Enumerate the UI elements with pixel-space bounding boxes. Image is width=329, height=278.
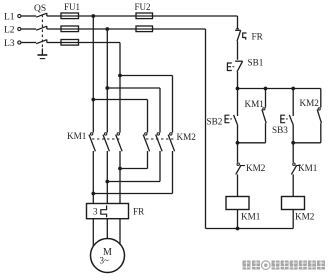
fuse FU1 xyxy=(61,2,80,45)
svg-text:KM2: KM2 xyxy=(295,212,315,222)
wire KM1 aux lower xyxy=(238,123,266,143)
node L2 xyxy=(4,26,21,36)
pushbutton SB1 NC stop xyxy=(227,58,263,72)
contactor KM1 main contacts xyxy=(67,131,122,151)
junction dot rail at SB3 branch xyxy=(291,87,295,91)
svg-text:QS: QS xyxy=(34,4,46,14)
contactor KM2 auxiliary NO contact xyxy=(300,98,322,123)
wire L3 QS to FU1 xyxy=(47,42,61,44)
svg-text:SB2: SB2 xyxy=(207,117,223,127)
wire control right column top xyxy=(236,16,239,29)
junction dot L1 drop xyxy=(91,14,95,18)
wire SB1 to top rail xyxy=(237,72,239,89)
junction dot tee U to KM2 xyxy=(91,98,95,102)
svg-text:FR: FR xyxy=(133,207,145,217)
wire interlock to KM2 coil xyxy=(292,174,294,196)
wire L2 QS to FU1 xyxy=(47,28,61,30)
wire tee V to KM2 middle pole xyxy=(107,88,160,133)
wire KM2 left pole lower xyxy=(120,151,148,169)
svg-text:FU2: FU2 xyxy=(135,2,151,12)
junction dot right branch rejoin xyxy=(291,141,295,145)
node L3 xyxy=(4,39,21,49)
svg-text:L2: L2 xyxy=(4,26,15,36)
wire KM1 pole V lower to FR box xyxy=(106,151,108,204)
wire L1 terminal to QS xyxy=(21,15,36,17)
fuse FU2 xyxy=(135,2,153,32)
wire KM2 coil to bottom rail xyxy=(292,210,294,229)
motor M xyxy=(91,239,125,273)
svg-text:3~: 3~ xyxy=(100,256,110,266)
coil KM2 xyxy=(282,197,315,222)
pushbutton SB3 NO start-reverse xyxy=(272,115,293,135)
wire SB2 lower xyxy=(237,125,239,143)
junction dot L2 drop xyxy=(105,27,109,31)
svg-text:L1: L1 xyxy=(4,13,15,23)
junction dot bottom rail xyxy=(236,227,240,231)
svg-text:L3: L3 xyxy=(4,39,15,49)
wire FR box to motor W xyxy=(119,219,121,245)
wire L3 row FU1 to drop xyxy=(79,42,121,44)
pushbutton SB2 NO start-forward xyxy=(207,115,238,127)
wire SB3 lower xyxy=(292,125,294,143)
wire KM1 pole U lower to FR box xyxy=(92,151,94,204)
svg-text:KM1: KM1 xyxy=(298,163,318,173)
watermark xyxy=(242,259,326,272)
svg-text:KM1: KM1 xyxy=(241,212,261,222)
wire tee W to KM2 right pole xyxy=(120,76,173,133)
contactor KM1 NC interlock contact xyxy=(291,163,317,174)
svg-text:KM2: KM2 xyxy=(246,163,266,173)
contactor KM1 auxiliary NO contact xyxy=(245,99,267,123)
wire KM1 pole W lower to FR box xyxy=(119,151,121,204)
wire phase V drop to KM1 contact xyxy=(106,29,108,133)
wire KM1 coil to bottom rail xyxy=(237,210,239,229)
wire phase W drop to KM1 contact xyxy=(119,43,121,133)
wire phase U drop to KM1 contact xyxy=(92,16,94,133)
svg-text:KM2: KM2 xyxy=(177,132,197,142)
wire SB2 upper xyxy=(237,89,239,117)
wire FR box to motor V xyxy=(106,219,108,239)
wire tee U to KM2 left pole xyxy=(93,100,147,133)
wire control top rail xyxy=(238,88,321,90)
svg-text:KM2: KM2 xyxy=(300,98,320,108)
svg-text:FU1: FU1 xyxy=(64,2,80,12)
wire left branch to interlock xyxy=(237,143,239,163)
junction dot join V-V xyxy=(105,180,109,184)
thermal relay FR heater box xyxy=(87,204,146,219)
wire KM1 aux upper xyxy=(265,89,267,108)
wire L2 terminal to QS xyxy=(21,28,36,30)
contactor KM2 main contacts xyxy=(143,132,196,151)
svg-text:KM1: KM1 xyxy=(245,99,265,109)
ground xyxy=(38,49,48,59)
wire L3 terminal to QS xyxy=(21,42,36,44)
wire L2 row FU1 to FU2 to control left column xyxy=(79,28,206,30)
switch QS xyxy=(34,4,47,49)
svg-text:3: 3 xyxy=(93,207,98,217)
svg-text:KM1: KM1 xyxy=(67,131,87,141)
contactor KM2 NC interlock contact xyxy=(236,163,266,174)
junction dot rail at SB2 branch xyxy=(236,87,240,91)
junction dot left branch rejoin xyxy=(236,141,240,145)
wire SB3 upper xyxy=(292,89,294,117)
wire interlock to KM1 coil xyxy=(237,174,239,196)
wire FR box to motor U xyxy=(92,219,94,247)
wire L1 row FU1 to FU2 to right column xyxy=(79,15,238,17)
wire L1 QS to FU1 xyxy=(47,15,61,17)
wire KM2 right pole lower xyxy=(93,151,172,194)
coil KM1 xyxy=(226,197,261,222)
wire KM2 aux lower xyxy=(293,123,321,143)
junction dot rail at KM1 aux branch xyxy=(264,87,268,91)
wire KM2 aux upper xyxy=(320,89,322,108)
wire FR to SB1 xyxy=(237,41,239,60)
junction dot tee W to KM2 xyxy=(118,74,122,78)
wire control bottom rail xyxy=(206,228,294,230)
junction dot join W-U xyxy=(118,167,122,171)
svg-text:FR: FR xyxy=(252,32,264,42)
junction dot join U-W xyxy=(91,192,95,196)
junction dot tee V to KM2 xyxy=(105,86,109,90)
svg-text:SB3: SB3 xyxy=(272,125,288,135)
wire right branch to interlock xyxy=(292,143,294,163)
svg-text:SB1: SB1 xyxy=(248,58,264,68)
thermal relay FR NC contact xyxy=(235,30,264,41)
wire KM2 middle pole lower xyxy=(107,151,160,182)
node L1 xyxy=(4,13,21,23)
wire control left column xyxy=(205,29,207,229)
